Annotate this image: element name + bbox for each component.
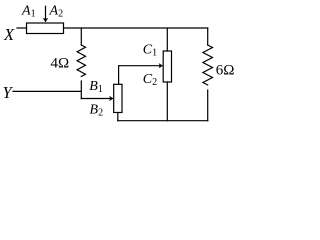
wire B bottom lead <box>117 113 119 121</box>
svg-text:C1: C1 <box>143 42 157 58</box>
resistor 4ohm zigzag <box>77 45 85 77</box>
svg-text:Y: Y <box>3 83 14 102</box>
resistor 6ohm zigzag <box>203 45 213 85</box>
wire C bottom lead <box>166 82 168 121</box>
svg-text:C2: C2 <box>143 72 157 88</box>
svg-text:B2: B2 <box>90 103 104 119</box>
svg-text:6Ω: 6Ω <box>216 63 234 79</box>
wire C top lead <box>166 28 168 51</box>
wire 4ohm top lead <box>80 28 82 45</box>
svg-text:B1: B1 <box>89 79 103 95</box>
wiper arrow into C <box>159 63 163 68</box>
potentiometer C (box) <box>163 51 171 82</box>
svg-text:A2: A2 <box>49 4 64 20</box>
wire bottom rail <box>118 120 208 122</box>
svg-text:A1: A1 <box>21 4 36 20</box>
wire 4ohm bottom lead to corner <box>80 81 82 99</box>
wire 6ohm top lead <box>207 28 209 45</box>
wiper arrow into A <box>43 6 48 22</box>
wiper arrow into B <box>81 96 113 101</box>
svg-text:X: X <box>3 25 15 44</box>
potentiometer B (box) <box>114 84 122 112</box>
wire top rail <box>64 27 208 29</box>
wire B top to C wiper corner <box>119 66 160 85</box>
wire Y lead <box>13 90 81 92</box>
potentiometer A (box) <box>27 23 64 34</box>
wire 6ohm bottom lead <box>207 90 209 121</box>
wire X lead <box>17 27 27 29</box>
svg-text:4Ω: 4Ω <box>51 55 70 71</box>
